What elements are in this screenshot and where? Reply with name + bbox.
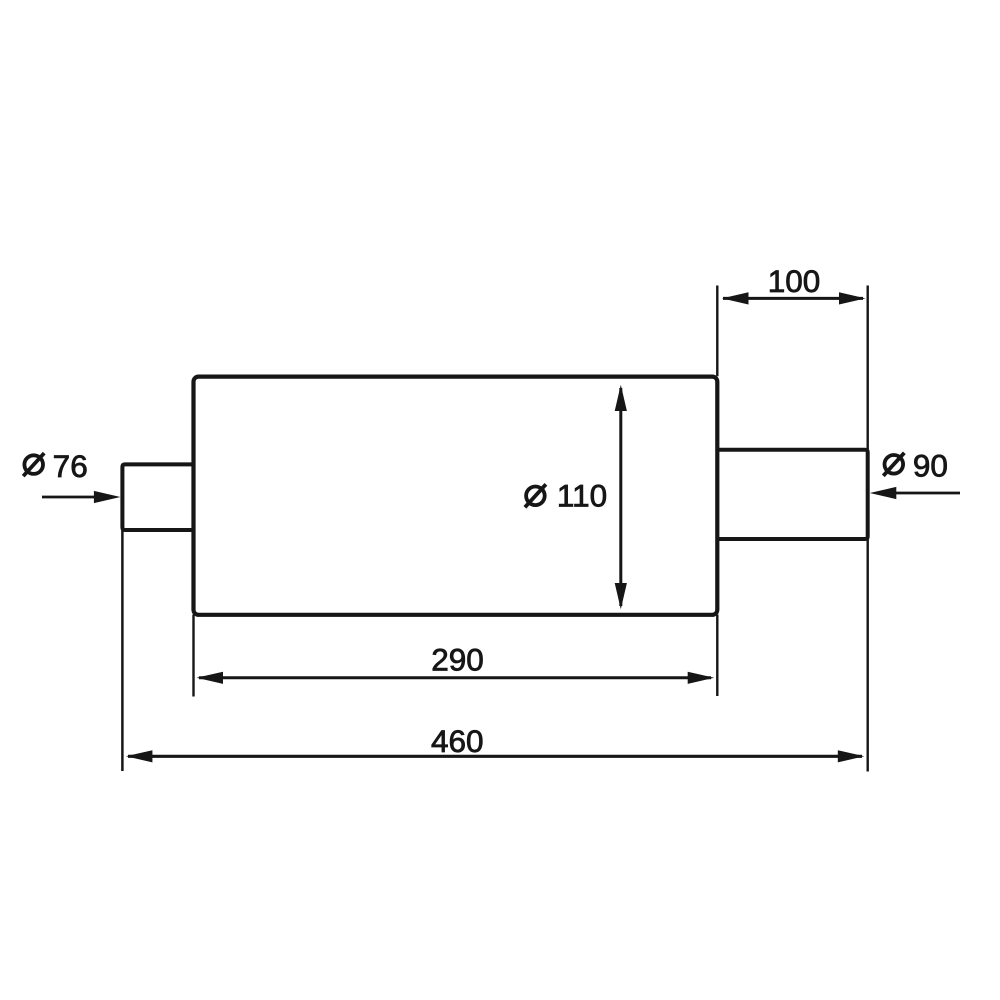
arrowhead top of Ø110 dim [615,385,627,411]
arrowhead right of 460 dim [838,750,865,762]
arrowhead left of 460 dim [126,750,152,762]
arrowhead bottom of Ø110 dim [615,583,627,609]
svg-text:460: 460 [431,723,484,759]
svg-text:100: 100 [768,263,821,299]
svg-text:290: 290 [431,642,484,678]
extension line above outlet pipe right edge (for 100 dim) [867,286,869,450]
muffler body outline [194,377,718,615]
arrowhead left of 100 dim [722,292,749,304]
outlet pipe (right, Ø90) [717,450,867,539]
leader arrow for Ø76 (points right at inlet pipe) [42,496,96,499]
vertical dimension line Ø110 [619,388,622,606]
extension line below body left edge (for 290 dim) [192,615,194,697]
dimension line 290 [199,676,711,679]
dimension line 460 [128,755,862,758]
svg-text:110: 110 [557,478,607,514]
extension line below body right edge (for 290 dim) [716,615,718,697]
leader arrow for Ø90 (points left at outlet pipe) [894,492,960,495]
extension line above body right edge (for 100 dim) [716,286,718,377]
diameter symbol of Ø76 label [23,453,44,476]
inlet pipe (left, Ø76) [122,464,193,530]
arrowhead right of 290 dim [688,672,715,684]
extension line below inlet pipe left edge (for 460 dim) [121,530,124,771]
arrowhead left of 290 dim [197,672,224,684]
arrowhead right of 100 dim [839,292,866,304]
svg-text:76: 76 [53,448,88,484]
svg-text:90: 90 [913,448,948,484]
diameter symbol of Ø90 label [883,453,904,476]
extension line below outlet pipe right edge (for 460 dim) [867,539,869,772]
diameter symbol of Ø110 label [525,484,546,507]
dimension line 100 [723,297,863,300]
